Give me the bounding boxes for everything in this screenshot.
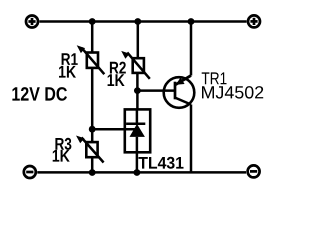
resistor R2 [121,51,150,79]
label R1 [62,53,78,65]
node dot top rail R2 [134,18,141,25]
label 1K a [59,66,76,78]
node dot base junction [134,87,141,94]
wire bottom rail [37,171,246,174]
node dot bottom rail R3 [89,169,96,176]
node dot bottom rail TL431 [134,169,141,176]
wire top rail [40,20,247,23]
label TL431 [139,157,184,169]
label R2 [110,62,126,74]
node dot top rail R1 [89,18,96,25]
wire R3 bottom lead [91,157,94,172]
label 1K c [53,150,70,162]
label R3 [55,138,71,150]
terminal + top-left [26,16,38,28]
label 1K b [108,74,125,86]
terminal - bottom-right [248,165,260,177]
wire R1 top lead [91,22,94,53]
wire collector to bottom rail [190,105,193,173]
transistor Q1 TR1 [164,76,195,108]
resistor R3 [76,136,104,163]
wire R1 bottom to R3 top [91,68,94,142]
node dot top rail emitter [188,18,195,25]
resistor R1 [77,45,105,74]
terminal + top-right [248,15,260,27]
node dot ref junction [89,126,96,133]
label MJ4502 [202,86,263,99]
wire R2 bottom to TL431 top [136,73,139,110]
label 12V DC [12,87,67,101]
wire ref from node to TL431 [92,128,137,131]
TL431 U1 [125,109,150,172]
wire R2 top lead [137,22,140,59]
wire emitter to top rail [190,22,193,76]
wire base from node to transistor [137,89,175,92]
label TR1 [202,72,227,84]
terminal - bottom-left [24,166,36,178]
